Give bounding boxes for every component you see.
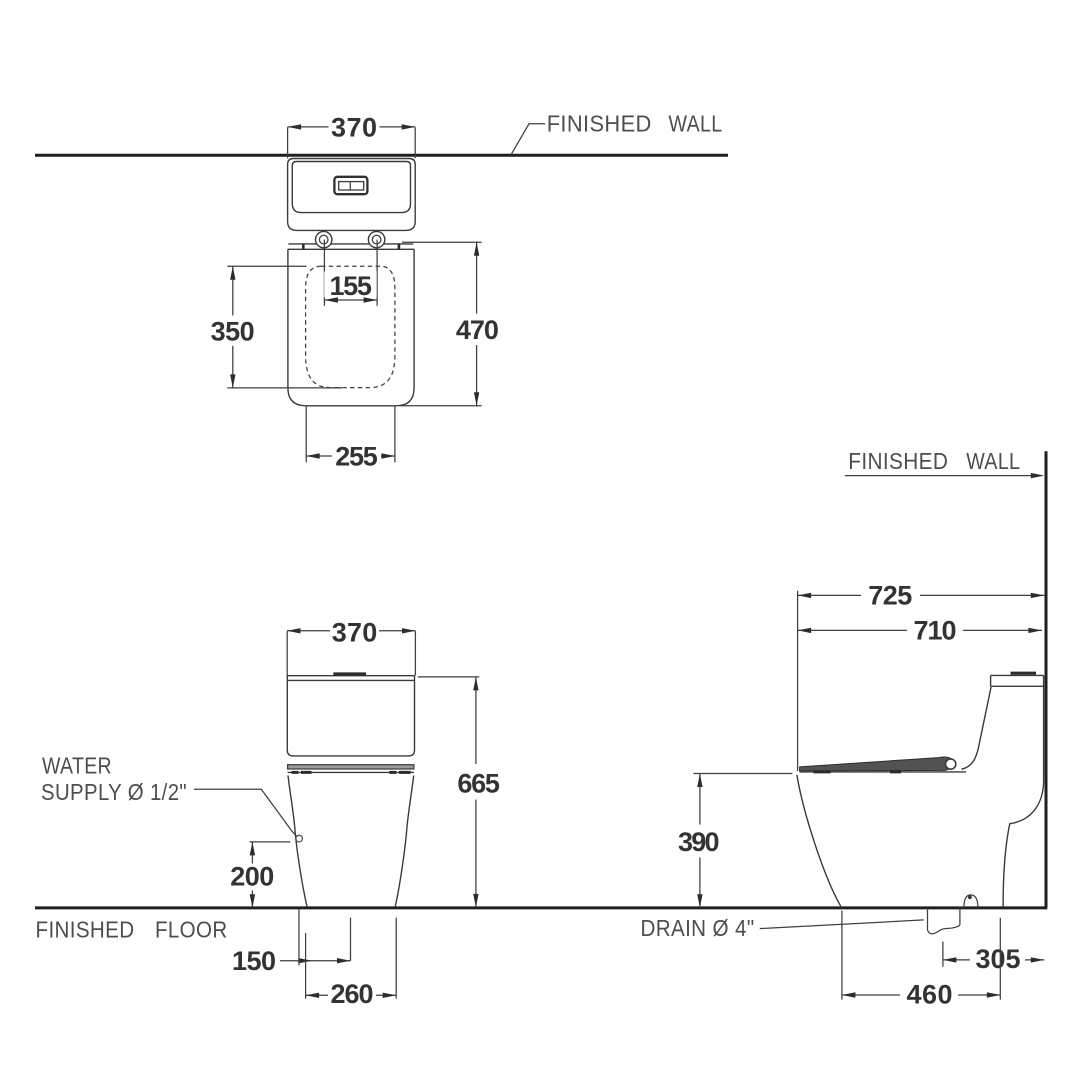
svg-text:255: 255 (335, 442, 378, 472)
svg-text:665: 665 (457, 769, 500, 799)
svg-text:470: 470 (456, 315, 499, 345)
PLAN VIEW (35, 111, 728, 472)
svg-text:260: 260 (331, 979, 374, 1009)
dimension 350 (plan, bowl length) (227, 266, 342, 388)
wall label underline with arrow (845, 475, 1040, 477)
seat lid back band (plan) (288, 244, 414, 249)
svg-text:WALL: WALL (966, 448, 1020, 474)
svg-text:390: 390 (678, 827, 720, 857)
dimension 370 (plan, tank width) (288, 126, 416, 128)
bowl front profile (side) (797, 775, 842, 908)
seat hinge right (plan) (368, 231, 384, 247)
drain pipe below floor (side) (928, 908, 960, 934)
dimension 155 (plan, hinge spacing) (324, 240, 377, 306)
trap arch at rear foot (side) (964, 895, 978, 908)
bowl rim line with bumpers (front) (288, 771, 414, 773)
svg-text:305: 305 (976, 944, 1021, 974)
svg-text:SUPPLY Ø 1/2": SUPPLY Ø 1/2" (41, 779, 187, 805)
svg-text:FLOOR: FLOOR (155, 917, 228, 943)
svg-text:725: 725 (868, 581, 912, 611)
flush button (front, top) (333, 672, 366, 675)
svg-text:200: 200 (230, 861, 274, 891)
tank lid (side) (991, 675, 1044, 686)
bowl inner dashed (plan) (306, 266, 395, 387)
finished wall line (side) (1045, 451, 1048, 908)
tank outline (front) (287, 676, 414, 756)
tank lid seam (front) (287, 679, 414, 681)
flush button outer (plan) (334, 177, 367, 194)
dimension 260 (front, base width) (306, 918, 397, 999)
svg-text:710: 710 (914, 616, 957, 646)
leader to wall (plan) (511, 124, 545, 155)
dimension 460 (side, base depth) (842, 911, 1000, 1000)
dimension 305 (side, drain to wall) (942, 942, 944, 967)
svg-text:FINISHED: FINISHED (848, 448, 948, 474)
finished floor line (35, 906, 1047, 909)
drain leader (760, 920, 924, 929)
extension line seat front (side) (797, 591, 799, 771)
flush button (side) (1011, 672, 1037, 675)
FRONT VIEW (35, 618, 1047, 1010)
tank lid inner (plan) (292, 162, 410, 213)
svg-text:WALL: WALL (669, 111, 723, 137)
svg-text:155: 155 (329, 271, 372, 301)
seat hinge roll (side) (946, 759, 956, 769)
svg-text:370: 370 (331, 113, 377, 143)
svg-text:150: 150 (232, 946, 276, 976)
svg-text:370: 370 (332, 618, 378, 648)
tank front profile (side) (962, 686, 992, 769)
SIDE VIEW (641, 448, 1047, 1009)
svg-text:FINISHED: FINISHED (547, 111, 652, 137)
dimension 470 (plan, overall depth) (401, 242, 482, 406)
water supply inlet circle (296, 835, 303, 842)
seat edge band (front) (288, 765, 414, 769)
finished wall line (plan) (35, 154, 728, 157)
seat hinge left (plan) (316, 231, 332, 247)
svg-text:460: 460 (907, 979, 953, 1009)
dimension 370 (front, tank width) (287, 630, 416, 632)
flush button inner (plan) (339, 182, 364, 190)
svg-text:DRAIN Ø 4": DRAIN Ø 4" (641, 915, 755, 941)
dimension 710 (side, toilet depth) (798, 629, 1042, 631)
seat closed wedge (side) (800, 757, 955, 771)
bowl rim line with bumpers (side) (799, 771, 966, 773)
dimension 255 (plan, bowl base width) (306, 406, 395, 462)
svg-text:350: 350 (211, 317, 255, 347)
dimension 200 (front, supply height) (250, 841, 291, 843)
dimension 665 (front, overall height) (418, 676, 480, 678)
tank back and body rear profile (side) (1003, 675, 1044, 906)
svg-text:WATER: WATER (42, 752, 112, 778)
dimension 390 (side, rim height) (693, 773, 792, 775)
bowl pedestal left edge (front) (288, 776, 307, 907)
svg-text:FINISHED: FINISHED (36, 917, 135, 943)
water supply leader (194, 789, 296, 836)
bowl pedestal right edge (front) (395, 776, 413, 907)
seat outer outline (plan) (288, 249, 414, 405)
tank outline (plan) (288, 159, 416, 231)
dimension 725 (side, overall to wall) (798, 594, 1045, 596)
